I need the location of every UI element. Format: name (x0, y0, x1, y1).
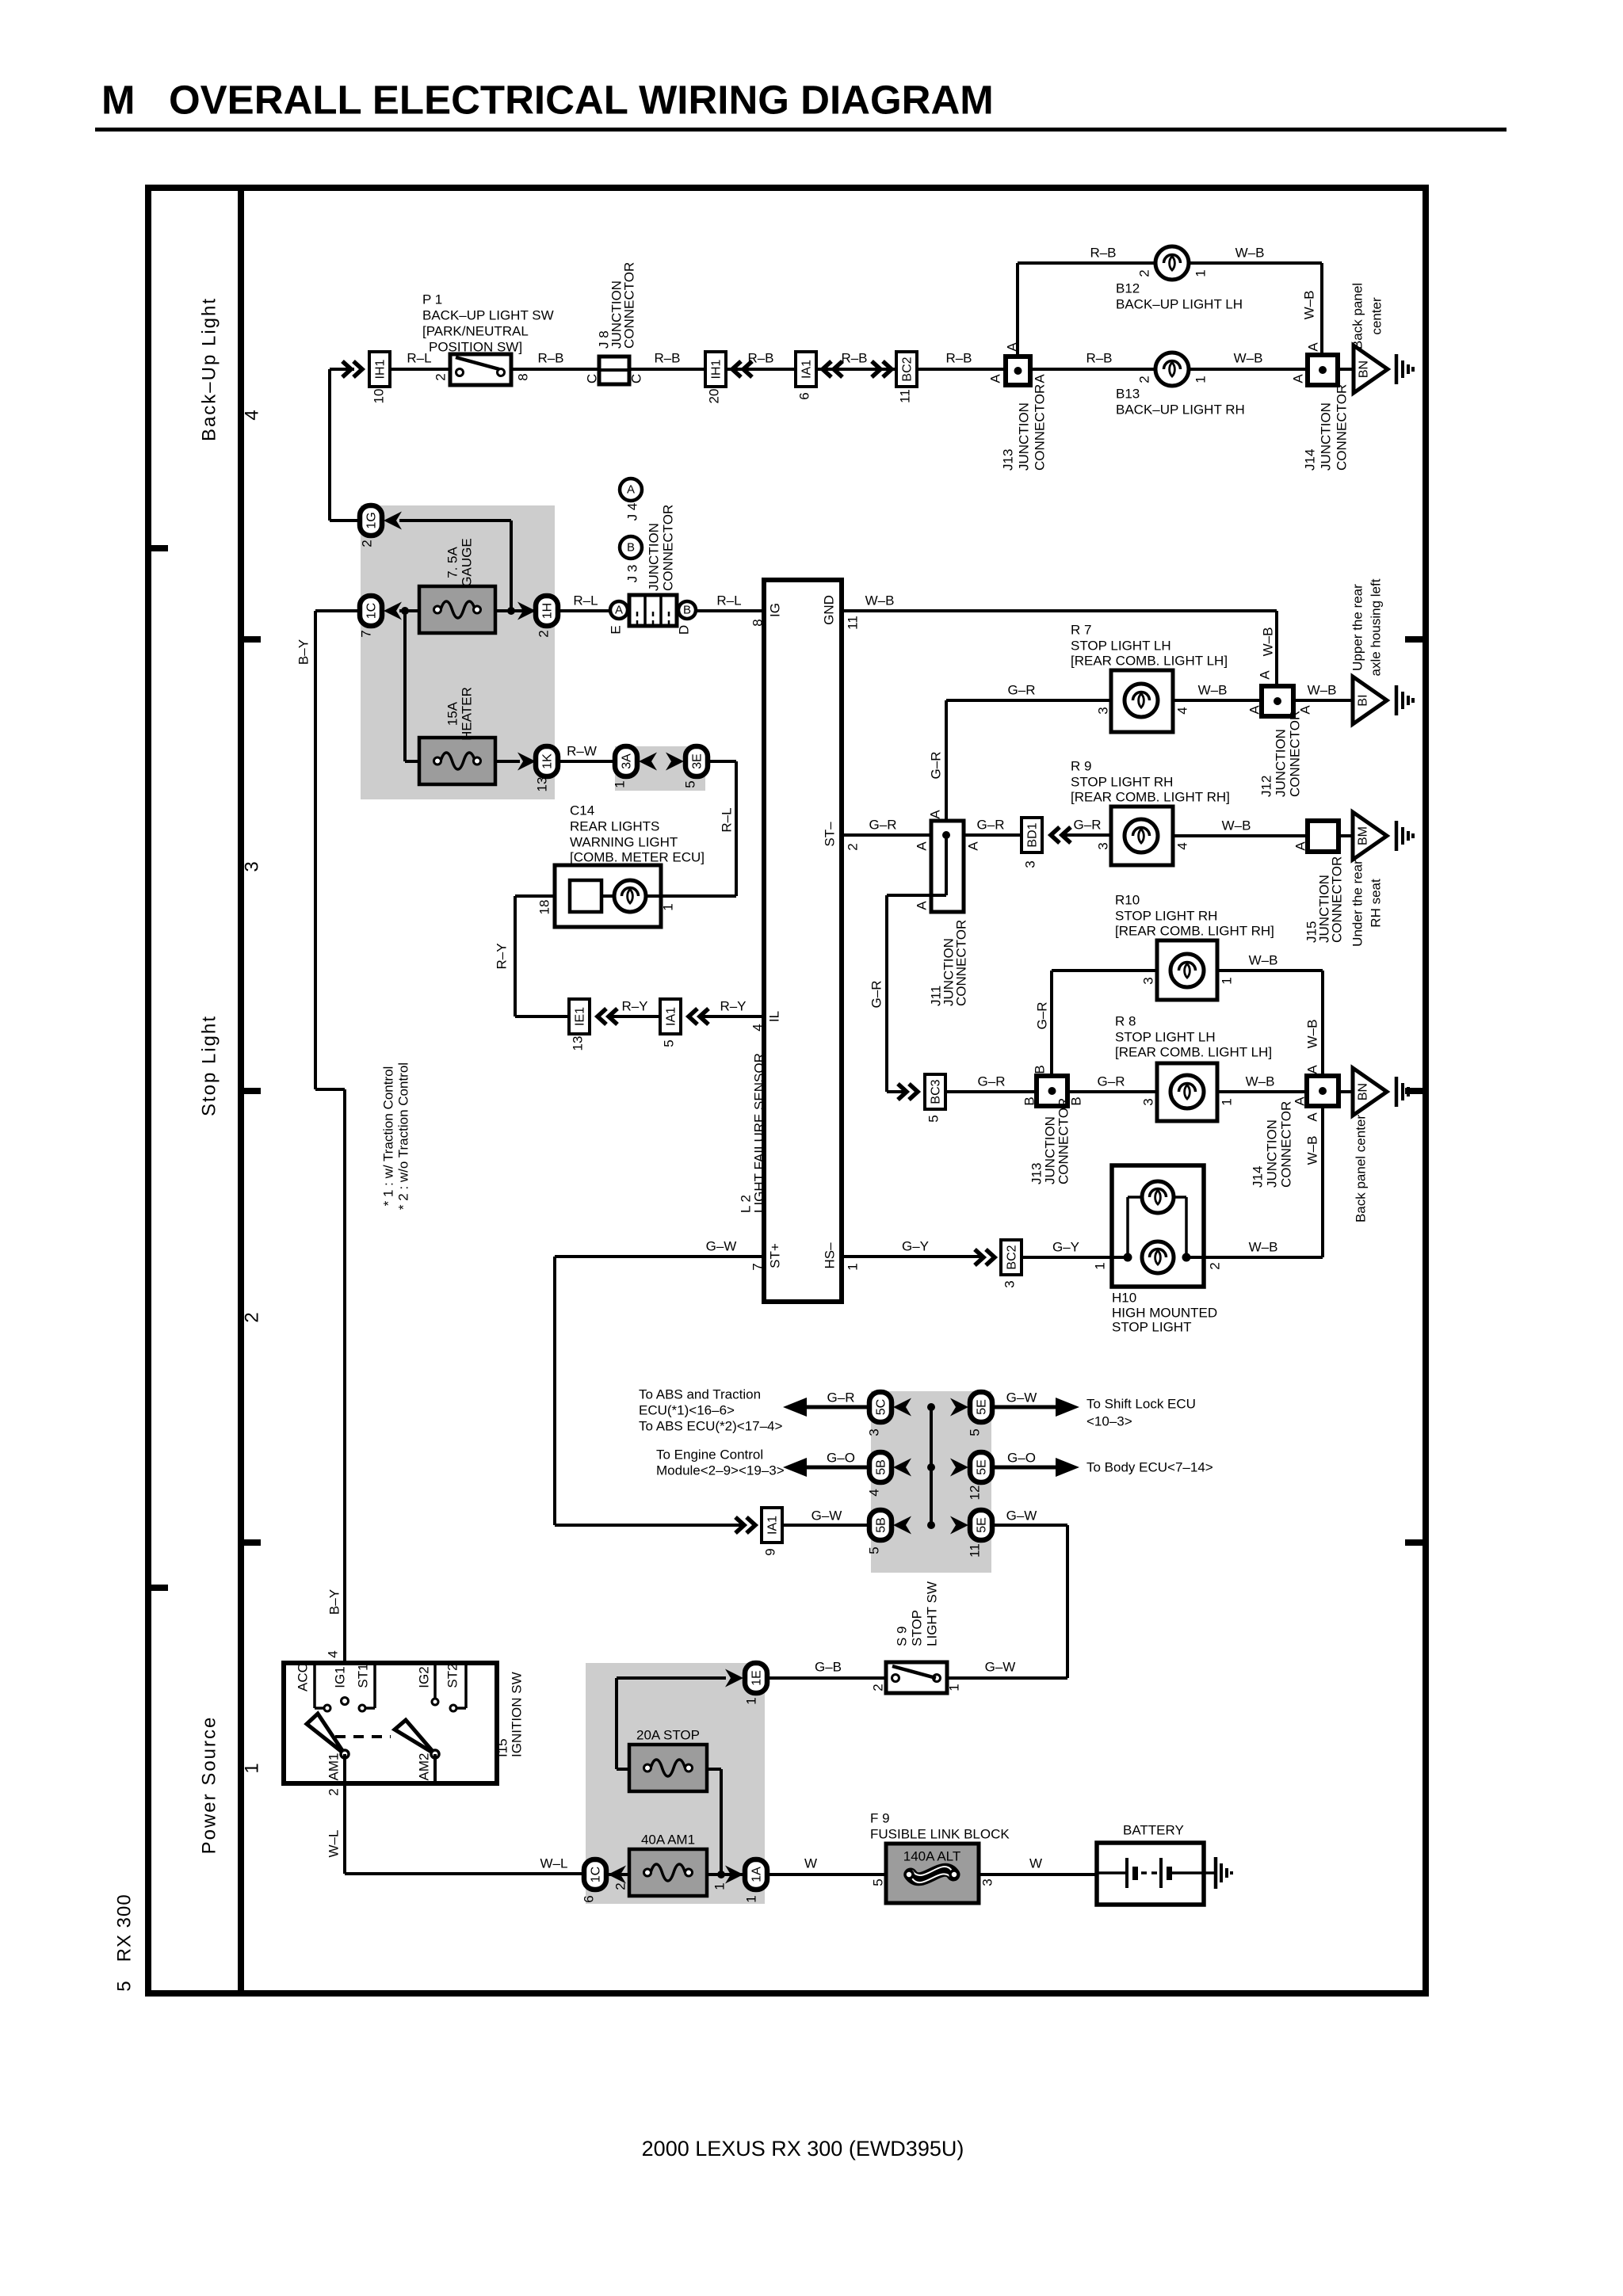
svg-text:W–L: W–L (540, 1856, 568, 1871)
svg-text:3: 3 (1141, 1098, 1156, 1105)
svg-text:D: D (677, 625, 692, 635)
svg-text:18: 18 (537, 900, 552, 915)
svg-text:A: A (615, 604, 623, 617)
svg-text:R–Y: R–Y (621, 999, 647, 1014)
svg-text:R–B: R–B (945, 351, 972, 366)
svg-text:B: B (1033, 1065, 1048, 1074)
svg-text:W: W (804, 1856, 817, 1871)
svg-text:5: 5 (926, 1115, 941, 1122)
svg-text:3: 3 (1002, 1280, 1018, 1287)
svg-text:<10–3>: <10–3> (1086, 1414, 1132, 1429)
svg-text:IL: IL (767, 1011, 782, 1022)
svg-text:E: E (609, 625, 624, 634)
svg-text:A: A (1247, 705, 1262, 715)
svg-text:center: center (1369, 297, 1384, 335)
svg-text:BN: BN (1358, 360, 1371, 378)
svg-text:A: A (627, 483, 635, 497)
svg-text:Stop Light: Stop Light (199, 1015, 220, 1116)
svg-text:IE1: IE1 (574, 1007, 587, 1026)
svg-text:GAUGE: GAUGE (460, 538, 475, 586)
svg-text:3: 3 (1096, 842, 1111, 849)
svg-text:B: B (627, 541, 635, 555)
svg-text:G–R: G–R (827, 1390, 855, 1405)
svg-text:3E: 3E (691, 753, 705, 769)
svg-text:3: 3 (1096, 707, 1111, 714)
svg-text:2: 2 (327, 1788, 342, 1795)
svg-text:3: 3 (1141, 977, 1156, 984)
svg-text:HEATER: HEATER (460, 687, 475, 741)
svg-text:5E: 5E (976, 1517, 989, 1533)
svg-text:2: 2 (1137, 376, 1152, 383)
svg-text:2: 2 (871, 1684, 886, 1691)
svg-text:R–Y: R–Y (720, 999, 746, 1014)
svg-text:G–Y: G–Y (902, 1239, 929, 1254)
svg-text:CONNECTOR: CONNECTOR (1288, 711, 1303, 797)
svg-text:140A ALT: 140A ALT (903, 1849, 960, 1864)
svg-text:1K: 1K (541, 753, 555, 769)
svg-text:Under the rear: Under the rear (1350, 860, 1365, 947)
svg-text:2: 2 (613, 1882, 628, 1890)
svg-text:R–W: R–W (567, 744, 597, 759)
svg-text:JUNCTION: JUNCTION (1265, 1119, 1280, 1188)
svg-text:G–W: G–W (811, 1508, 842, 1524)
svg-text:JUNCTION: JUNCTION (647, 523, 662, 591)
svg-text:5B: 5B (875, 1517, 888, 1533)
svg-text:5: 5 (867, 1547, 882, 1554)
svg-text:4: 4 (750, 1024, 766, 1031)
svg-text:3: 3 (867, 1428, 882, 1436)
svg-text:8: 8 (750, 619, 766, 626)
svg-text:A: A (1293, 841, 1308, 851)
svg-text:HS–: HS– (823, 1242, 838, 1269)
svg-text:W–B: W–B (1249, 1240, 1278, 1255)
svg-text:B–Y: B–Y (327, 1589, 342, 1615)
svg-text:1: 1 (661, 903, 676, 910)
svg-text:CONNECTOR: CONNECTOR (1056, 1098, 1071, 1184)
svg-text:G–R: G–R (1098, 1074, 1125, 1089)
svg-text:20: 20 (707, 389, 722, 404)
svg-text:BC2: BC2 (901, 357, 915, 381)
svg-text:STOP: STOP (910, 1610, 925, 1646)
svg-text:12: 12 (968, 1486, 983, 1501)
svg-text:IA1: IA1 (800, 360, 814, 379)
svg-text:G–O: G–O (1007, 1451, 1036, 1466)
svg-text:IH1: IH1 (710, 359, 724, 379)
svg-text:2: 2 (846, 843, 861, 850)
svg-text:1: 1 (947, 1684, 962, 1691)
svg-text:1E: 1E (750, 1670, 764, 1686)
svg-text:1: 1 (1220, 1098, 1235, 1105)
svg-text:5C: 5C (875, 1399, 888, 1415)
svg-text:RH seat: RH seat (1369, 879, 1384, 928)
svg-text:BM: BM (1357, 826, 1370, 845)
svg-text:1G: 1G (365, 512, 379, 528)
svg-text:W–B: W–B (1249, 953, 1278, 968)
svg-text:WARNING LIGHT: WARNING LIGHT (570, 835, 678, 850)
svg-text:JUNCTION: JUNCTION (1017, 402, 1032, 471)
svg-text:A: A (915, 901, 930, 910)
svg-text:C: C (585, 374, 600, 383)
svg-text:G–W: G–W (1006, 1508, 1037, 1524)
svg-text:2: 2 (433, 373, 449, 380)
svg-text:FUSIBLE LINK BLOCK: FUSIBLE LINK BLOCK (870, 1827, 1010, 1842)
svg-text:B: B (1022, 1097, 1037, 1105)
svg-text:1: 1 (744, 1895, 759, 1902)
svg-text:W–B: W–B (1198, 683, 1228, 698)
svg-text:JUNCTION: JUNCTION (1319, 402, 1334, 471)
svg-text:W–B: W–B (1222, 818, 1251, 833)
svg-text:11: 11 (898, 389, 913, 403)
svg-text:W–B: W–B (1302, 291, 1317, 320)
svg-text:R 8: R 8 (1115, 1014, 1136, 1029)
svg-text:R–L: R–L (407, 351, 431, 366)
svg-text:1: 1 (613, 780, 628, 788)
svg-text:5B: 5B (875, 1459, 888, 1475)
svg-text:8: 8 (516, 373, 531, 380)
svg-text:Power Source: Power Source (199, 1716, 220, 1855)
svg-text:4: 4 (326, 1650, 341, 1657)
svg-text:IA1: IA1 (665, 1007, 678, 1026)
svg-text:R 9: R 9 (1071, 759, 1091, 774)
svg-text:ST1: ST1 (356, 1663, 371, 1688)
svg-text:J14: J14 (1251, 1166, 1266, 1188)
svg-text:B13: B13 (1116, 387, 1140, 402)
svg-text:STOP LIGHT: STOP LIGHT (1112, 1320, 1191, 1335)
svg-text:IG1: IG1 (333, 1666, 348, 1688)
svg-text:A: A (1258, 670, 1273, 680)
svg-text:CONNECTOR: CONNECTOR (954, 920, 969, 1006)
svg-text:G–B: G–B (815, 1660, 842, 1675)
svg-text:BI: BI (1357, 694, 1370, 706)
svg-text:G–W: G–W (706, 1239, 737, 1254)
svg-text:ST+: ST+ (768, 1243, 783, 1268)
svg-text:G–R: G–R (1008, 683, 1036, 698)
svg-text:3: 3 (1023, 860, 1038, 868)
svg-text:CONNECTOR: CONNECTOR (1335, 384, 1350, 471)
svg-text:R–B: R–B (1090, 246, 1116, 261)
svg-text:A: A (928, 810, 943, 819)
svg-text:A: A (1306, 342, 1321, 352)
svg-text:[REAR COMB. LIGHT LH]: [REAR COMB. LIGHT LH] (1115, 1045, 1272, 1060)
svg-text:IA1: IA1 (766, 1516, 780, 1535)
svg-text:To ABS ECU(*2)<17–4>: To ABS ECU(*2)<17–4> (639, 1419, 783, 1434)
svg-text:2: 2 (1208, 1262, 1223, 1269)
svg-text:Module<2–9><19–3>: Module<2–9><19–3> (656, 1463, 785, 1478)
svg-text:To Shift Lock ECU: To Shift Lock ECU (1086, 1397, 1196, 1412)
svg-text:R–B: R–B (747, 351, 773, 366)
svg-text:4: 4 (1175, 842, 1190, 849)
svg-text:5: 5 (871, 1878, 886, 1886)
svg-text:G–W: G–W (1006, 1390, 1037, 1405)
svg-text:STOP LIGHT RH: STOP LIGHT RH (1115, 909, 1217, 924)
svg-text:4: 4 (1175, 707, 1190, 714)
svg-text:LIGHT FAILURE SENSOR: LIGHT FAILURE SENSOR (752, 1053, 767, 1213)
svg-text:CONNECTOR: CONNECTOR (661, 505, 676, 591)
svg-text:W–B: W–B (1246, 1074, 1275, 1089)
svg-text:40A AM1: 40A AM1 (641, 1833, 695, 1848)
svg-text:1: 1 (1193, 376, 1209, 383)
svg-text:R–B: R–B (537, 351, 563, 366)
svg-text:IG: IG (768, 603, 783, 617)
svg-text:[REAR COMB. LIGHT LH]: [REAR COMB. LIGHT LH] (1071, 654, 1228, 669)
svg-text:G–R: G–R (869, 818, 897, 833)
svg-text:HIGH MOUNTED: HIGH MOUNTED (1112, 1306, 1217, 1321)
svg-text:1: 1 (744, 1697, 759, 1704)
svg-text:11: 11 (846, 616, 861, 630)
svg-text:H10: H10 (1112, 1291, 1136, 1306)
svg-text:R–B: R–B (1086, 351, 1112, 366)
svg-text:A: A (915, 841, 930, 851)
svg-text:B: B (683, 604, 691, 617)
svg-text:R–B: R–B (654, 351, 680, 366)
svg-text:R10: R10 (1115, 893, 1140, 908)
svg-text:JUNCTION: JUNCTION (1274, 729, 1289, 797)
svg-text:R–Y: R–Y (495, 943, 510, 969)
svg-text:A: A (1305, 1065, 1320, 1074)
svg-text:AM1: AM1 (327, 1753, 342, 1781)
svg-text:3: 3 (242, 861, 263, 871)
svg-text:7: 7 (359, 630, 374, 637)
svg-text:R–L: R–L (716, 593, 741, 608)
svg-text:5: 5 (683, 780, 698, 788)
svg-text:STOP LIGHT LH: STOP LIGHT LH (1115, 1030, 1216, 1045)
svg-text:J12: J12 (1259, 776, 1274, 797)
svg-text:Back–Up Light: Back–Up Light (199, 297, 220, 441)
svg-text:IG2: IG2 (417, 1666, 432, 1688)
svg-text:G–R: G–R (1035, 1002, 1050, 1030)
svg-text:W–B: W–B (1261, 627, 1276, 657)
svg-text:W–B: W–B (865, 593, 895, 608)
svg-text:G–R: G–R (1074, 818, 1102, 833)
svg-text:CONNECTOR: CONNECTOR (622, 262, 637, 349)
svg-text:J13: J13 (1001, 449, 1016, 471)
svg-text:P 1: P 1 (422, 292, 442, 307)
svg-text:A: A (1033, 374, 1048, 383)
svg-text:BACK–UP LIGHT SW: BACK–UP LIGHT SW (422, 308, 554, 323)
svg-text:3: 3 (980, 1878, 995, 1886)
svg-text:G–R: G–R (869, 981, 884, 1009)
svg-text:2: 2 (537, 630, 552, 637)
svg-text:1: 1 (1193, 269, 1209, 277)
svg-text:REAR LIGHTS: REAR LIGHTS (570, 819, 659, 834)
svg-text:13: 13 (571, 1036, 586, 1051)
svg-text:W: W (1029, 1856, 1042, 1871)
svg-text:STOP LIGHT RH: STOP LIGHT RH (1071, 775, 1173, 790)
svg-text:5: 5 (662, 1039, 677, 1047)
svg-text:9: 9 (763, 1548, 778, 1555)
svg-text:A: A (1305, 1112, 1320, 1122)
svg-text:IH1: IH1 (374, 359, 388, 379)
svg-text:1: 1 (846, 1263, 861, 1270)
svg-text:13: 13 (535, 777, 550, 792)
svg-text:W–B: W–B (1235, 246, 1265, 261)
svg-text:B12: B12 (1116, 281, 1140, 296)
svg-text:A: A (1293, 1097, 1308, 1106)
svg-text:R–B: R–B (841, 351, 867, 366)
svg-text:STOP LIGHT LH: STOP LIGHT LH (1071, 639, 1171, 654)
svg-text:* 2 : w/o Traction Control: * 2 : w/o Traction Control (396, 1062, 411, 1210)
svg-text:G–Y: G–Y (1052, 1240, 1079, 1255)
svg-text:2: 2 (1137, 269, 1152, 277)
svg-text:To Body ECU<7–14>: To Body ECU<7–14> (1086, 1460, 1213, 1475)
svg-text:6: 6 (582, 1895, 597, 1902)
svg-text:1: 1 (712, 1882, 727, 1890)
svg-text:BN: BN (1357, 1083, 1370, 1100)
svg-text:J14: J14 (1303, 449, 1318, 471)
svg-text:* 1 : w/ Traction Control: * 1 : w/ Traction Control (381, 1066, 396, 1207)
svg-text:GND: GND (822, 595, 837, 625)
svg-text:4: 4 (867, 1489, 882, 1496)
svg-text:[PARK/NEUTRAL: [PARK/NEUTRAL (422, 324, 529, 339)
svg-text:BACK–UP LIGHT LH: BACK–UP LIGHT LH (1116, 297, 1243, 312)
svg-text:W–L: W–L (327, 1830, 342, 1858)
svg-text:G–O: G–O (827, 1451, 855, 1466)
svg-text:AM2: AM2 (417, 1753, 432, 1781)
svg-text:7: 7 (750, 1263, 766, 1270)
svg-text:BC2: BC2 (1006, 1245, 1019, 1269)
svg-text:5E: 5E (976, 1459, 989, 1475)
svg-text:2: 2 (242, 1312, 263, 1322)
svg-text:CONNECTOR: CONNECTOR (1279, 1101, 1294, 1188)
svg-text:B–Y: B–Y (296, 639, 311, 665)
svg-text:20A STOP: 20A STOP (636, 1728, 700, 1743)
svg-text:7. 5A: 7. 5A (445, 546, 460, 578)
svg-text:C14: C14 (570, 803, 594, 818)
svg-text:M OVERALL ELECTRICAL WIRING: M OVERALL ELECTRICAL WIRING DIAGRAM (101, 78, 994, 123)
svg-text:[REAR COMB. LIGHT RH]: [REAR COMB. LIGHT RH] (1071, 790, 1230, 805)
svg-text:CONNECTOR: CONNECTOR (1330, 856, 1345, 943)
svg-text:2: 2 (360, 540, 375, 547)
svg-text:1C: 1C (590, 1867, 603, 1882)
svg-text:J 4: J 4 (625, 503, 640, 521)
svg-text:ST–: ST– (823, 822, 838, 847)
svg-text:A: A (1291, 374, 1306, 383)
svg-text:R–L: R–L (573, 593, 598, 608)
svg-text:4: 4 (242, 410, 263, 420)
svg-text:R–L: R–L (720, 807, 735, 832)
svg-text:I15: I15 (495, 1738, 510, 1757)
svg-text:To ABS and Traction: To ABS and Traction (639, 1387, 761, 1402)
svg-text:15A: 15A (445, 701, 460, 726)
svg-text:5: 5 (968, 1428, 983, 1436)
svg-text:G–R: G–R (977, 818, 1005, 833)
svg-text:G–R: G–R (978, 1074, 1006, 1089)
svg-text:1: 1 (1220, 977, 1235, 984)
svg-text:ST2: ST2 (445, 1663, 460, 1688)
svg-text:A: A (988, 374, 1003, 383)
svg-text:A: A (1005, 342, 1020, 352)
svg-text:BATTERY: BATTERY (1123, 1823, 1184, 1838)
svg-text:2000 LEXUS RX 300 (EWD395U): 2000 LEXUS RX 300 (EWD395U) (642, 2137, 964, 2161)
svg-text:ACC: ACC (296, 1663, 311, 1691)
svg-text:BC3: BC3 (930, 1079, 943, 1104)
svg-text:6: 6 (797, 392, 812, 399)
svg-text:BACK–UP LIGHT RH: BACK–UP LIGHT RH (1116, 402, 1245, 418)
svg-text:W–B: W–B (1308, 683, 1337, 698)
svg-text:3A: 3A (621, 753, 634, 769)
svg-text:1C: 1C (365, 603, 379, 619)
svg-text:1H: 1H (541, 603, 555, 619)
svg-text:G–R: G–R (929, 752, 944, 780)
svg-text:[COMB. METER ECU]: [COMB. METER ECU] (570, 850, 705, 865)
svg-text:Upper the rear: Upper the rear (1350, 584, 1365, 671)
svg-text:BD1: BD1 (1026, 822, 1040, 847)
svg-text:J 3: J 3 (625, 565, 640, 583)
svg-text:ECU(*1)<16–6>: ECU(*1)<16–6> (639, 1403, 735, 1418)
svg-text:5 RX 300: 5 RX 300 (114, 1894, 136, 1991)
svg-text:W–B: W–B (1234, 351, 1263, 366)
svg-text:W–B: W–B (1305, 1136, 1320, 1165)
svg-text:10: 10 (372, 389, 387, 404)
svg-text:S 9: S 9 (895, 1626, 910, 1646)
svg-text:IGNITION SW: IGNITION SW (510, 1672, 525, 1757)
svg-text:5E: 5E (976, 1399, 989, 1415)
svg-text:LIGHT SW: LIGHT SW (925, 1581, 940, 1646)
svg-text:1: 1 (242, 1763, 263, 1773)
svg-text:CONNECTOR: CONNECTOR (1033, 384, 1048, 471)
svg-text:Back panel: Back panel (1350, 283, 1365, 349)
svg-text:axle housing left: axle housing left (1369, 578, 1384, 676)
svg-text:C: C (629, 374, 644, 383)
svg-text:POSITION SW]: POSITION SW] (429, 340, 522, 355)
svg-text:A: A (966, 841, 981, 851)
svg-text:1A: 1A (750, 1867, 764, 1882)
svg-text:[REAR COMB. LIGHT RH]: [REAR COMB. LIGHT RH] (1115, 924, 1274, 939)
svg-text:G–W: G–W (985, 1660, 1016, 1675)
svg-text:F 9: F 9 (870, 1811, 890, 1826)
svg-text:1: 1 (1093, 1262, 1108, 1269)
svg-text:11: 11 (968, 1543, 983, 1558)
svg-text:Back panel center: Back panel center (1354, 1115, 1369, 1222)
svg-text:W–B: W–B (1305, 1020, 1320, 1049)
svg-text:R 7: R 7 (1071, 623, 1091, 638)
svg-text:To Engine Control: To Engine Control (656, 1447, 763, 1463)
